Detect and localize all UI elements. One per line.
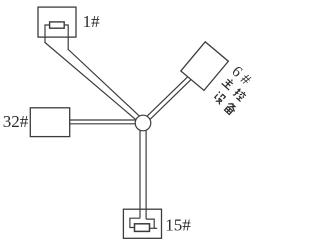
- svg-text:15#: 15#: [165, 215, 191, 234]
- svg-text:32#: 32#: [3, 112, 29, 131]
- svg-text:1#: 1#: [83, 12, 101, 31]
- svg-text:6#: 6#: [228, 63, 257, 91]
